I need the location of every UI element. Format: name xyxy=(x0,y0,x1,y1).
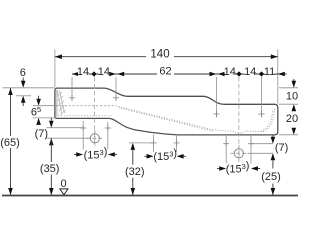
faucet hole cross right xyxy=(214,111,220,117)
svg-text:11: 11 xyxy=(264,66,275,78)
extension line top level left xyxy=(3,87,55,89)
ground line xyxy=(2,195,298,197)
svg-text:20: 20 xyxy=(286,113,298,125)
overflow section hatch xyxy=(58,91,66,116)
dim 35 left chain xyxy=(40,138,60,195)
extension line faucet hole right xyxy=(216,77,218,118)
svg-text:14: 14 xyxy=(98,66,110,78)
leader line bolt row right xyxy=(251,143,273,145)
leader line drain row right xyxy=(248,152,273,154)
dim 15-3 left xyxy=(74,146,117,162)
extension line right top level xyxy=(279,87,298,89)
svg-text:(32): (32) xyxy=(125,166,145,178)
extension line bolt holes right pair xyxy=(226,136,251,164)
extension line faucet hole left2 xyxy=(115,77,117,101)
centerline right bowl dashed xyxy=(238,77,240,162)
svg-text:62: 62 xyxy=(159,65,171,77)
svg-text:14: 14 xyxy=(224,66,236,78)
svg-text:14: 14 xyxy=(244,66,256,78)
extension line 6.5 upper xyxy=(33,105,57,107)
washbasin outline xyxy=(55,88,278,135)
bolt hole cross right pair xyxy=(223,141,254,147)
svg-text:(7): (7) xyxy=(275,142,288,154)
datum 0 symbol xyxy=(60,178,68,195)
dim 32 mid chain xyxy=(125,143,145,195)
dim 15-3 right xyxy=(217,160,260,176)
svg-text:(35): (35) xyxy=(40,163,60,175)
drain outlet left xyxy=(87,130,104,147)
inner rim slope double dotted xyxy=(116,106,275,133)
extension line 6.5 lower xyxy=(33,117,56,119)
dim 25 right chain xyxy=(261,153,281,195)
extension line faucet hole left xyxy=(71,77,73,101)
dim 140 xyxy=(55,47,278,60)
extension line right shelf level xyxy=(279,103,298,105)
dim 6 top left xyxy=(20,67,26,106)
dim 65 left chain xyxy=(0,88,20,195)
bolt hole cross mid pair xyxy=(151,140,180,146)
basin inner wall left xyxy=(56,90,58,117)
svg-text:10: 10 xyxy=(286,90,298,102)
dim 10 right xyxy=(286,79,298,102)
dim 6-5 left xyxy=(31,96,41,125)
faucet hole cross right2 xyxy=(259,111,265,117)
extension line bolt holes mid pair xyxy=(154,135,177,152)
faucet hole cross left2 xyxy=(113,95,119,101)
svg-text:14: 14 xyxy=(77,66,89,78)
leader line bolt row left xyxy=(47,127,84,129)
centerline left bowl dashed xyxy=(93,77,95,147)
inner bowl bottom dotted xyxy=(58,115,112,117)
inner bowl hidden edge dashed xyxy=(57,105,116,107)
extension line bolt holes left pair xyxy=(83,121,108,150)
bolt hole cross left pair xyxy=(80,125,111,131)
svg-text:6: 6 xyxy=(20,67,26,79)
drain outlet right xyxy=(231,145,248,162)
extension line right 140 xyxy=(277,50,279,104)
dim 7 left xyxy=(35,118,54,146)
dim 7 right xyxy=(271,135,289,154)
faucet hole cross left xyxy=(69,95,75,101)
leader line bolt row mid xyxy=(129,142,154,144)
dim row 14 14 62 14 14 11 xyxy=(72,65,287,78)
svg-text:140: 140 xyxy=(150,48,169,60)
svg-text:(7): (7) xyxy=(35,128,48,140)
svg-text:(25): (25) xyxy=(261,171,281,183)
svg-text:(65): (65) xyxy=(0,137,20,149)
dim 20 right xyxy=(286,104,298,135)
extension line right bottom level xyxy=(279,134,298,136)
leader line drain row left xyxy=(47,137,91,139)
extension line left 140 xyxy=(54,50,56,88)
extension line faucet hole right2 xyxy=(261,77,263,118)
dim 15-3 mid xyxy=(144,148,185,164)
extension line step level left xyxy=(16,95,31,97)
svg-text:0: 0 xyxy=(61,178,67,190)
